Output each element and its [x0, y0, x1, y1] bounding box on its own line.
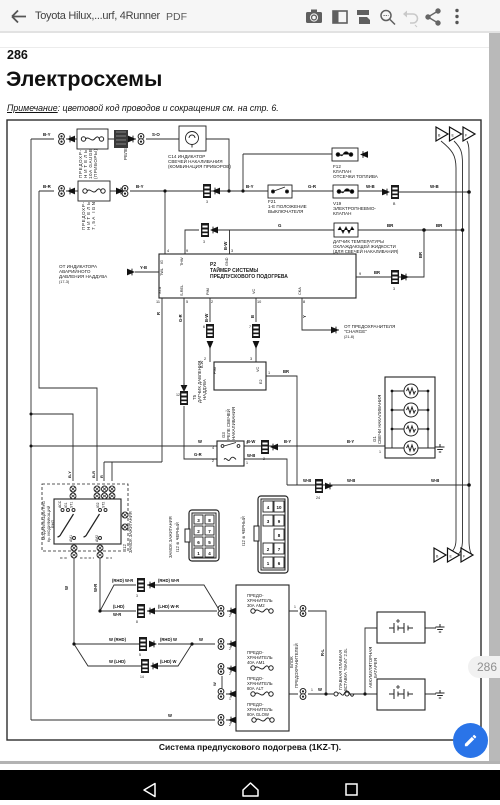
oval pair bottom W row — [218, 715, 224, 726]
svg-text:СВЕЧЕЙ НАКАЛИВАНИЯ: СВЕЧЕЙ НАКАЛИВАНИЯ — [168, 157, 223, 164]
gray separator line — [0, 761, 500, 764]
svg-text:2: 2 — [229, 672, 231, 676]
svg-text:B-W: B-W — [200, 360, 204, 368]
svg-text:Y-B: Y-B — [140, 265, 147, 270]
svg-text:БАТАРЕЯ: БАТАРЕЯ — [373, 658, 378, 678]
svg-text:B-W: B-W — [247, 439, 255, 444]
svg-text:(LHD) W-R: (LHD) W-R — [158, 604, 179, 609]
oval connector row2 left — [59, 186, 65, 197]
svg-text:1: 1 — [229, 697, 231, 701]
svg-text:(17-3): (17-3) — [59, 280, 70, 284]
page headings — [7, 48, 28, 62]
wire relay pin5 B-Y to glow plugs — [244, 445, 385, 447]
ground battery 2 — [436, 690, 445, 698]
svg-text:10: 10 — [257, 300, 261, 304]
svg-text:5: 5 — [186, 300, 188, 304]
RHD W-R row connector IE1 — [137, 578, 145, 592]
svg-text:W-B: W-B — [366, 184, 375, 189]
svg-text:THW: THW — [180, 257, 184, 266]
wire battery grounds — [425, 628, 436, 694]
svg-text:3: 3 — [206, 200, 208, 204]
fuse F 10A GAUGE box — [77, 129, 108, 149]
svg-text:ОТСЕЧКИ ТОПЛИВА: ОТСЕЧКИ ТОПЛИВА — [333, 174, 379, 179]
wire PIM drop — [209, 298, 211, 362]
wire CKA to CHARGE label — [302, 298, 339, 330]
svg-text:ПРЕДПУСКОВОГО ПОДОГРЕВА: ПРЕДПУСКОВОГО ПОДОГРЕВА — [210, 274, 288, 280]
wire funnel RHD W-R row — [100, 585, 218, 611]
charge fuse label — [331, 327, 339, 334]
boost indicator label — [59, 264, 108, 284]
recents button — [346, 784, 357, 795]
wire row1 B-Y from left bus to fuse — [31, 138, 54, 140]
svg-text:(RHD) W-R: (RHD) W-R — [158, 578, 179, 583]
svg-text:IG: IG — [160, 260, 164, 264]
wire T5 E2 out — [266, 376, 297, 485]
glow plug 4 — [404, 441, 418, 455]
label temp sensor — [333, 239, 399, 254]
svg-text:(RHD) W: (RHD) W — [160, 637, 177, 642]
W LHD row connector — [141, 659, 149, 673]
timer P2 box — [159, 254, 356, 298]
svg-text:ПРЕДОХРАНИТЕЛЕЙ: ПРЕДОХРАНИТЕЛЕЙ — [294, 643, 299, 688]
svg-text:B-Y: B-Y — [347, 439, 354, 444]
ground battery 1 — [436, 624, 445, 632]
back arrow — [12, 11, 26, 23]
glow plugs G1 box — [385, 377, 435, 458]
android navigation bar — [0, 770, 500, 800]
svg-text:BR: BR — [418, 252, 423, 258]
ground for glow plugs — [436, 444, 445, 452]
relay G3 box — [217, 441, 244, 466]
back button — [144, 784, 155, 797]
svg-text:W-B: W-B — [347, 478, 355, 483]
label C14 — [168, 154, 231, 169]
connector B IG1 — [391, 185, 399, 199]
connector 12 IA1 on S-REL — [180, 391, 188, 405]
svg-text:30А AM2: 30А AM2 — [247, 603, 265, 608]
svg-text:1: 1 — [379, 450, 381, 454]
svg-text:VC: VC — [252, 288, 256, 294]
wire GLOW row — [226, 694, 282, 720]
undo icon (disabled) — [403, 11, 418, 28]
wire B-Y branch to ignition — [31, 414, 73, 481]
glow plug 3 — [404, 422, 418, 436]
svg-text:НАКАЛИВАНИЯ: НАКАЛИВАНИЯ — [231, 407, 236, 440]
arrow into IG1 — [382, 189, 390, 196]
fuse 40A AM1 — [247, 650, 273, 665]
connector 3 IG1 timer right — [391, 270, 399, 284]
svg-text:B-R: B-R — [43, 184, 52, 189]
svg-text:B-Y: B-Y — [136, 184, 144, 189]
svg-text:(ДЛЯ СВЕЧЕЙ НАКАЛИВАНИЯ): (ДЛЯ СВЕЧЕЙ НАКАЛИВАНИЯ) — [333, 249, 399, 254]
oval after ALT — [300, 689, 306, 700]
fuse 7.5A label — [81, 202, 96, 230]
svg-text:W (RHD): W (RHD) — [109, 637, 127, 642]
right gray gutter — [489, 33, 500, 768]
svg-text:1: 1 — [311, 688, 313, 692]
connector 7 IG1 on VC — [252, 324, 260, 338]
svg-text:6: 6 — [203, 325, 205, 329]
svg-text:(LHD): (LHD) — [113, 604, 125, 609]
wire row1 fuse to relay to C14 — [66, 138, 179, 140]
wire Y-B into timer — [135, 271, 159, 273]
svg-text:I12: I12 — [122, 544, 127, 550]
svg-text:W: W — [318, 687, 322, 692]
label V19 — [333, 201, 376, 216]
fuse 80A GLOW — [247, 702, 273, 717]
svg-text:2: 2 — [212, 459, 214, 463]
oval pair row3 — [218, 664, 224, 675]
svg-text:8: 8 — [303, 300, 305, 304]
wire G row THW to temp sensor — [185, 230, 462, 254]
svg-text:Y: Y — [302, 315, 307, 318]
svg-text:GND: GND — [225, 257, 229, 266]
share icon — [426, 9, 440, 25]
svg-text:9: 9 — [359, 272, 361, 276]
svg-text:(ПРИБОРЫ): (ПРИБОРЫ) — [93, 149, 98, 179]
svg-text:W-B: W-B — [430, 184, 439, 189]
svg-text:R: R — [99, 475, 104, 478]
svg-text:I12 ⊗ ЧЕРНЫЙ: I12 ⊗ ЧЕРНЫЙ — [241, 516, 246, 546]
svg-text:BR: BR — [283, 369, 289, 374]
svg-text:I12 ⊗ ЧЕРНЫЙ: I12 ⊗ ЧЕРНЫЙ — [175, 522, 180, 552]
svg-text:14: 14 — [140, 675, 144, 679]
wire W-B row to right — [287, 484, 469, 486]
wire R from STA down to ignition — [104, 298, 162, 481]
connector 6 IG1 on PIM — [206, 324, 214, 338]
thumbnails icon — [333, 11, 347, 23]
svg-text:W-B: W-B — [303, 478, 311, 483]
fuse block box — [236, 585, 289, 731]
svg-text:IG2: IG2 — [96, 502, 100, 508]
wire B-Y to IG pin — [164, 191, 166, 254]
fuse block label — [289, 643, 299, 688]
wire B-Y drop to F12 row — [243, 154, 332, 191]
home button — [243, 783, 258, 796]
wire W to relay G3 — [31, 445, 217, 447]
svg-text:S-REL: S-REL — [180, 285, 184, 296]
I12 ignition lock label — [122, 512, 128, 518]
svg-text:РЕЛЕ: РЕЛЕ — [123, 148, 128, 160]
svg-text:5: 5 — [139, 653, 141, 657]
fuse 10A label — [78, 149, 98, 179]
fuse 80A ALT — [247, 676, 273, 691]
wire VC drop — [255, 298, 257, 362]
svg-text:B-R: B-R — [91, 471, 96, 478]
svg-text:ACC: ACC — [58, 500, 62, 508]
app bar — [0, 0, 500, 33]
svg-text:W-R: W-R — [113, 612, 121, 617]
switch bottom connector circles — [71, 545, 103, 558]
svg-text:ЗАМОК ЗАЖИГАНИЯ: ЗАМОК ЗАЖИГАНИЯ — [128, 511, 133, 553]
wire left bus vertical — [30, 139, 32, 720]
svg-text:IG1: IG1 — [64, 502, 68, 508]
page number pill — [468, 656, 500, 678]
svg-text:12: 12 — [176, 393, 180, 397]
svg-text:BR: BR — [387, 223, 394, 228]
wire C14 out right and drop — [206, 139, 229, 191]
svg-text:24: 24 — [316, 496, 320, 500]
svg-text:(LHD) W: (LHD) W — [160, 659, 177, 664]
oval pair W-R rows — [218, 606, 224, 617]
svg-text:МОДИФИКАЦИИ RHD: МОДИФИКАЦИИ RHD — [42, 501, 46, 540]
svg-text:1: 1 — [294, 605, 296, 609]
svg-text:PIM: PIM — [206, 288, 210, 295]
svg-text:G-R: G-R — [308, 184, 317, 189]
svg-text:40А AM1: 40А AM1 — [247, 660, 265, 665]
pencil icon — [465, 735, 476, 746]
outer frame — [7, 120, 481, 740]
svg-text:ЗАМОК ЗАЖИГАНИЯ: ЗАМОК ЗАЖИГАНИЯ — [168, 516, 173, 558]
connector on G row — [201, 223, 209, 237]
svg-text:3: 3 — [203, 240, 205, 244]
valve V19 box — [333, 185, 358, 198]
svg-text:W-B: W-B — [247, 453, 255, 458]
svg-text:11: 11 — [156, 300, 160, 304]
svg-text:80А GLOW: 80А GLOW — [247, 712, 270, 717]
svg-text:W (LHD): W (LHD) — [109, 659, 126, 664]
svg-text:W-R: W-R — [93, 584, 98, 592]
svg-text:2: 2 — [229, 614, 231, 618]
svg-text:W: W — [168, 713, 172, 718]
wire W LHD row — [74, 644, 192, 666]
svg-text:PIM: PIM — [213, 367, 217, 374]
timer pin labels — [156, 249, 361, 304]
svg-text:10: 10 — [276, 505, 282, 510]
svg-text:(21-8): (21-8) — [344, 335, 355, 339]
label F21 — [268, 199, 307, 214]
glow plug 2 — [404, 403, 418, 417]
glow plug 1 — [404, 384, 418, 398]
overflow menu — [455, 9, 458, 24]
svg-text:W-B: W-B — [431, 478, 439, 483]
svg-text:AM2: AM2 — [95, 535, 99, 542]
svg-text:2: 2 — [204, 357, 206, 361]
svg-text:VC: VC — [256, 366, 260, 372]
svg-text:СВЕЧИ НАКАЛИВАНИЯ: СВЕЧИ НАКАЛИВАНИЯ — [377, 395, 382, 444]
svg-text:2: 2 — [229, 723, 231, 727]
label F12 — [333, 164, 379, 179]
svg-text:B-Y: B-Y — [67, 471, 72, 478]
svg-text:E2: E2 — [259, 379, 263, 384]
wire row2 B-R — [39, 191, 469, 192]
floating edit button — [453, 723, 488, 758]
svg-text:7: 7 — [249, 325, 251, 329]
oval pair W row — [218, 639, 224, 650]
svg-text:W: W — [198, 439, 202, 444]
svg-text:3: 3 — [231, 249, 233, 253]
svg-text:ВЫКЛЮЧАТЕЛЯ: ВЫКЛЮЧАТЕЛЯ — [268, 209, 303, 214]
search icon — [381, 11, 395, 25]
svg-text:"CHARGE": "CHARGE" — [344, 329, 367, 334]
W RHD row connector — [139, 637, 147, 651]
LHD W-R row connector IA1 — [137, 604, 145, 618]
svg-text:B: B — [393, 202, 396, 206]
wire bottom curves into arrows — [448, 540, 472, 554]
wire BR row right — [424, 229, 462, 231]
wire bottom W row — [31, 719, 215, 721]
wire ignition bottom drops — [74, 558, 100, 644]
battery 1 box — [377, 612, 425, 643]
arrow into fuse1 — [67, 136, 75, 143]
svg-text:STA: STA — [158, 286, 162, 294]
svg-text:AM1: AM1 — [69, 535, 73, 542]
svg-text:ВСТАВКА "MAIN" 2.0L: ВСТАВКА "MAIN" 2.0L — [343, 648, 348, 691]
oval pair row4 — [218, 689, 224, 700]
svg-text:9: 9 — [186, 249, 188, 253]
battery 2 box — [377, 679, 425, 710]
svg-text:НАДДУВА: НАДДУВА — [202, 379, 207, 400]
svg-text:ST2: ST2 — [102, 502, 106, 508]
svg-text:G: G — [278, 223, 282, 228]
doc export icon — [357, 10, 370, 24]
oval connector row2 right — [122, 186, 128, 197]
svg-text:B-W: B-W — [204, 314, 209, 322]
block A label — [168, 516, 180, 558]
svg-text:3: 3 — [250, 357, 252, 361]
svg-text:B-Y: B-Y — [43, 132, 51, 137]
connector block C black — [258, 496, 288, 573]
oval after AM2 — [300, 606, 306, 617]
wire GND stub — [229, 230, 231, 254]
page arrow triangles bottom — [434, 548, 446, 562]
wire three page arrows top curves — [441, 141, 469, 540]
wire rows into fuse block — [227, 611, 326, 694]
wire pair3 down to pair4 — [221, 676, 223, 688]
svg-text:W: W — [199, 637, 203, 642]
wire S-REL G-R to IA1 and relay — [184, 298, 217, 459]
connector circles above switch — [70, 486, 115, 499]
svg-text:(RHD) W-R: (RHD) W-R — [112, 578, 133, 583]
svg-text:7,5А IGN: 7,5А IGN — [91, 202, 96, 230]
svg-text:3: 3 — [136, 594, 138, 598]
T5 boost pressure sensor box — [214, 362, 266, 390]
oval connector row1 left — [59, 134, 65, 145]
svg-text:B: B — [250, 315, 255, 318]
svg-text:ST1: ST1 — [70, 502, 74, 508]
dashed RHD box — [42, 484, 128, 551]
svg-text:W: W — [64, 586, 69, 590]
C14 indicator box — [179, 126, 206, 151]
svg-text:8: 8 — [136, 620, 138, 624]
svg-text:80А ALT: 80А ALT — [247, 686, 264, 691]
svg-text:G-R: G-R — [178, 314, 183, 322]
relay block (dark) — [114, 130, 128, 148]
svg-text:R-L: R-L — [320, 649, 325, 656]
connector 2 IG1 on row2 — [203, 184, 211, 198]
svg-text:ДАВЛЕНИЯ НАДДУВА: ДАВЛЕНИЯ НАДДУВА — [59, 274, 108, 279]
svg-text:2: 2 — [229, 647, 231, 651]
switch F21 box — [268, 185, 292, 198]
svg-text:1: 1 — [246, 461, 248, 465]
wire row2 drop B-R to ignition — [39, 191, 97, 481]
wire timer right pin to IG1 conn and BR drop — [356, 230, 424, 277]
oval connector row1 right — [138, 134, 144, 145]
svg-text:CKA: CKA — [298, 287, 302, 295]
svg-text:4: 4 — [167, 249, 169, 253]
fuse 30A AM2 — [247, 593, 273, 608]
temp sensor resistor box — [334, 223, 358, 237]
wire LHD W-R row — [100, 610, 217, 612]
svg-text:Система предпускового подогрев: Система предпускового подогрева (1KZ-T). — [159, 742, 341, 752]
svg-text:2: 2 — [211, 300, 213, 304]
svg-text:3: 3 — [393, 287, 395, 291]
svg-text:АВАРИЙНОГО: АВАРИЙНОГО — [59, 267, 91, 274]
fuse 7.5A IGN box — [78, 181, 110, 201]
svg-text:1: 1 — [268, 371, 270, 375]
svg-text:B-Y: B-Y — [284, 439, 291, 444]
connector on B-Y row — [261, 440, 269, 454]
svg-text:2: 2 — [263, 457, 265, 461]
svg-text:G-R: G-R — [194, 452, 202, 457]
svg-text:КЛАПАН: КЛАПАН — [333, 211, 351, 216]
svg-text:B-Y: B-Y — [246, 184, 254, 189]
svg-text:R: R — [156, 312, 161, 315]
svg-text:S-O: S-O — [152, 132, 160, 137]
valve F12 box — [332, 148, 358, 161]
svg-text:ТАЙМЕР СИСТЕМЫ: ТАЙМЕР СИСТЕМЫ — [210, 266, 258, 274]
connector block A black — [189, 510, 219, 561]
wire relay pin1 W-B down — [244, 459, 287, 485]
svg-text:BR: BR — [436, 223, 443, 228]
MAIN fusible link — [334, 692, 338, 696]
W-B row connector — [315, 479, 323, 493]
battery label — [368, 647, 378, 688]
svg-text:4: 4 — [212, 446, 214, 450]
ignition switch I12 box — [54, 499, 121, 544]
wire ALT row to MAIN to battery — [226, 628, 377, 694]
svg-text:B-W: B-W — [223, 242, 228, 250]
svg-text:TWL: TWL — [160, 268, 164, 276]
svg-text:BR: BR — [374, 270, 380, 275]
page arrow triangles top — [436, 127, 448, 141]
svg-text:W: W — [212, 682, 217, 686]
wire W RHD row — [74, 643, 215, 645]
svg-text:(КОМБИНАЦИЯ ПРИБОРОВ): (КОМБИНАЦИЯ ПРИБОРОВ) — [168, 164, 231, 169]
camera icon — [306, 10, 322, 24]
